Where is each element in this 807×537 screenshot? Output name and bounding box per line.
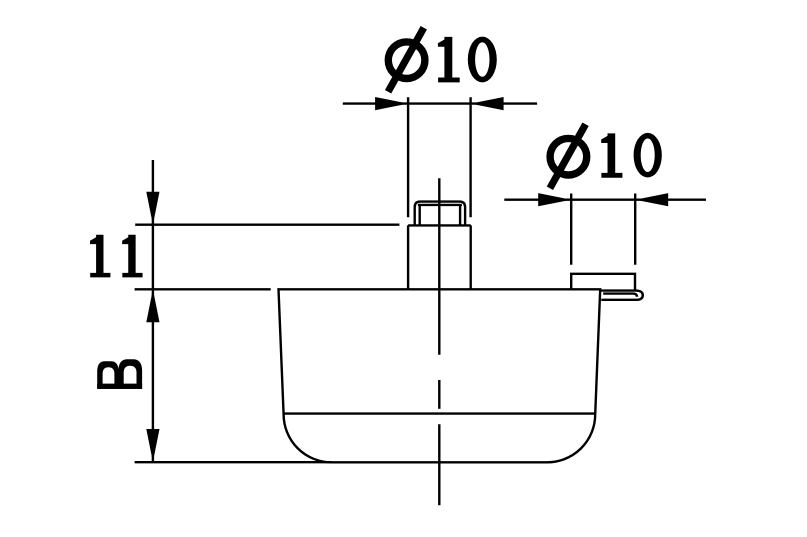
- text 1 of right Ø10: [601, 133, 622, 177]
- text B rotated: left lobe: [97, 361, 118, 389]
- arrow top-dim right: [471, 97, 504, 110]
- arrow right-dim right: [635, 193, 668, 206]
- extension line 11 bottom / B top: [135, 288, 271, 290]
- extension line right left: [570, 194, 572, 265]
- text B rotated: left counter: [103, 367, 115, 383]
- body inner bottom line: [284, 412, 595, 414]
- stem right side: [470, 225, 472, 289]
- text 11 first digit: [90, 235, 110, 278]
- bead inner right: [459, 205, 461, 226]
- extension line top right: [469, 97, 471, 217]
- extension line B bottom: [135, 461, 332, 463]
- arrow B top pointing up: [146, 289, 159, 322]
- text 11 second digit: [122, 235, 142, 278]
- text 1 of top Ø10: [438, 37, 460, 83]
- bead outer: [415, 202, 465, 226]
- arrow right-dim left: [538, 193, 571, 206]
- text 0 of top Ø10: [468, 37, 497, 83]
- lip inner line: [603, 294, 637, 297]
- text B rotated: right counter: [124, 366, 137, 384]
- centerline vertical: [438, 178, 440, 355]
- body outline: [279, 289, 601, 462]
- arrow B bottom pointing down: [146, 429, 159, 462]
- text 0 of right Ø10: [634, 133, 662, 178]
- extension line top left: [407, 97, 409, 217]
- dimension line right: [504, 198, 706, 200]
- text diameter symbol right: [550, 124, 587, 188]
- extension line right right: [634, 194, 636, 265]
- text B rotated: base bar: [97, 384, 142, 389]
- stem shoulder: [408, 224, 471, 226]
- dimension line top: [343, 102, 537, 104]
- lip outer: [600, 291, 643, 300]
- arrow 11 top pointing down: [146, 192, 159, 225]
- text diameter symbol top: [388, 28, 425, 92]
- dimension line left vertical: [152, 160, 154, 462]
- arrow top-dim left: [375, 97, 408, 110]
- text B rotated: right lobe: [118, 359, 142, 389]
- boss outline: [571, 274, 635, 291]
- bead inner left: [419, 205, 421, 226]
- bead inner top: [418, 204, 462, 206]
- extension line 11 top: [135, 223, 399, 225]
- stem left side: [407, 225, 409, 289]
